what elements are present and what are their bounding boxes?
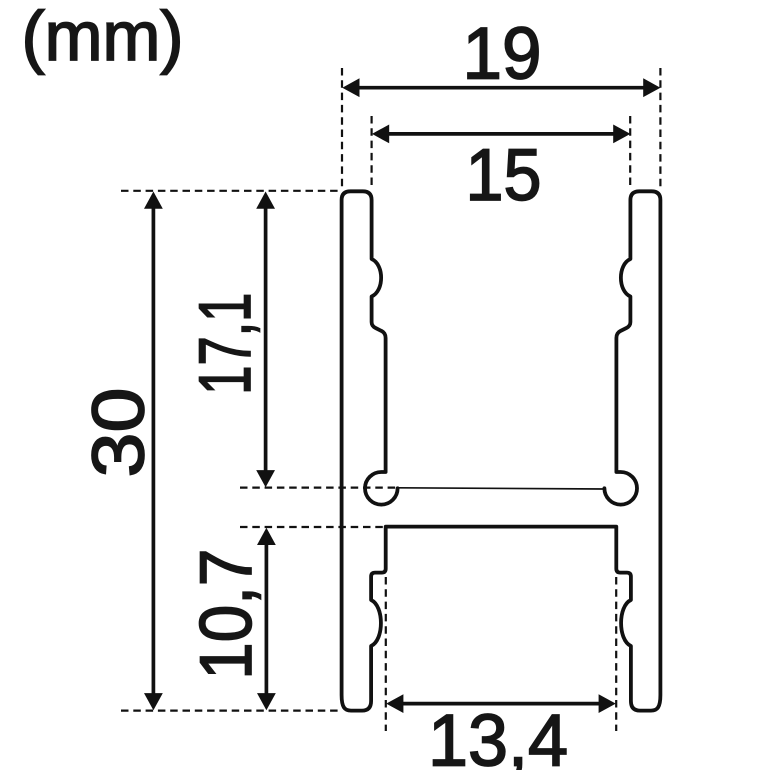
svg-text:10,7: 10,7	[186, 549, 267, 680]
extension line dashed vertical left (15)	[371, 116, 373, 187]
svg-text:17,1: 17,1	[185, 293, 266, 395]
svg-text:(mm): (mm)	[22, 0, 184, 75]
extension line dashed horizontal top (30 / 17,1)	[121, 190, 340, 192]
extension line dashed vertical bottom left (13,4)	[385, 577, 387, 731]
dimension line 15	[387, 132, 615, 136]
extension line dashed vertical right (19)	[659, 68, 661, 189]
dimension line 13,4	[401, 702, 601, 706]
svg-text:19: 19	[463, 14, 542, 95]
dimension line 30	[152, 207, 156, 695]
dimension line 19	[357, 86, 645, 90]
extension line dashed horizontal at lower plate (10,7)	[240, 526, 384, 528]
svg-text:13,4: 13,4	[428, 701, 568, 770]
extension line dashed vertical bottom right (13,4)	[615, 577, 617, 731]
extension line dashed vertical left (19)	[341, 68, 343, 189]
thin web line between screw bosses	[399, 488, 604, 489]
dimension line 17,1	[264, 207, 268, 472]
extension line dashed horizontal at boss centre (17,1)	[240, 487, 396, 489]
dimension line 10,7	[265, 543, 269, 695]
extension line dashed vertical right (15)	[629, 116, 631, 187]
svg-text:30: 30	[79, 388, 160, 478]
profile outline (aluminium extrusion cross-section)	[342, 191, 661, 710]
extension line dashed horizontal bottom (30 / 10,7)	[121, 709, 341, 711]
svg-text:15: 15	[466, 135, 542, 216]
